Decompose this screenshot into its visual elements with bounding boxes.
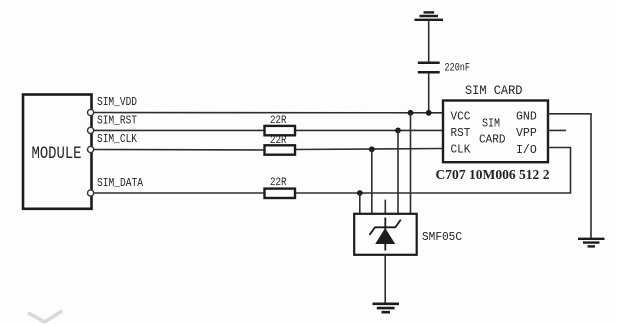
svg-text:SIM_RST: SIM_RST	[97, 115, 137, 128]
svg-text:220nF: 220nF	[445, 63, 471, 75]
junction SIM_VDD / TVS	[408, 110, 414, 116]
wire SIM_CLK to TVS	[371, 149, 373, 214]
pin circle SIM_CLK	[88, 146, 94, 152]
pin circle SIM_RST	[88, 127, 94, 133]
zener diode symbol inside D1	[370, 218, 401, 251]
svg-text:CLK: CLK	[451, 143, 472, 157]
watermark chevron bottom-left	[29, 312, 61, 323]
svg-text:VPP: VPP	[516, 126, 537, 140]
wire SIM_DATA / I-O routing segment	[295, 148, 571, 194]
junction SIM_DATA / TVS	[357, 190, 363, 196]
capacitor C1 220nF	[418, 63, 440, 73]
svg-text:SIM_CLK: SIM_CLK	[97, 133, 137, 146]
svg-text:22R: 22R	[270, 115, 287, 127]
wire ground to capacitor	[428, 20, 430, 62]
svg-text:SIM CARD: SIM CARD	[465, 84, 523, 98]
junction SIM_RST / TVS	[395, 127, 401, 133]
wire SIM_RST to TVS	[397, 130, 399, 213]
sim card connector J1 box	[443, 101, 548, 163]
wire GND pin to right ground	[548, 114, 591, 239]
svg-text:VCC: VCC	[451, 109, 471, 123]
resistor R3 22R (SIM_DATA)	[265, 189, 296, 198]
wire SIM_CLK right segment	[295, 149, 444, 150]
junction SIM_VDD / capacitor	[426, 110, 432, 116]
svg-text:C707 10M006 512 2: C707 10M006 512 2	[436, 167, 550, 182]
wire SIM_RST right segment	[295, 129, 444, 131]
wire TVS center stub	[384, 200, 386, 214]
pin circle SIM_VDD	[88, 109, 94, 115]
wire SIM_RST left segment	[93, 129, 265, 131]
wire capacitor to SIM_VDD line	[428, 73, 430, 113]
pin circle SIM_DATA	[88, 190, 94, 196]
svg-text:GND: GND	[516, 109, 537, 123]
ground (right)	[578, 239, 605, 247]
svg-text:SIM_VDD: SIM_VDD	[97, 96, 137, 109]
TVS diode array D1 SMF05C box	[354, 214, 417, 255]
wire SIM_VDD to TVS	[410, 113, 412, 214]
wire VPP stub	[548, 129, 566, 131]
svg-text:CARD: CARD	[479, 132, 506, 146]
svg-text:22R: 22R	[270, 135, 287, 147]
svg-text:SIM_DATA: SIM_DATA	[97, 177, 143, 190]
wire TVS to bottom ground	[384, 255, 386, 304]
resistor R1 22R (SIM_RST)	[265, 126, 296, 135]
module U1 MODULE box	[23, 95, 92, 209]
svg-text:MODULE: MODULE	[32, 144, 82, 164]
svg-text:SMF05C: SMF05C	[422, 230, 462, 244]
svg-text:22R: 22R	[270, 177, 287, 189]
wire SIM_DATA to TVS	[359, 193, 361, 214]
zener triangle (anode)	[375, 228, 395, 244]
wire SIM_DATA left segment	[93, 192, 265, 194]
wire SIM_CLK left segment	[93, 149, 265, 152]
svg-text:RST: RST	[451, 126, 471, 140]
junction SIM_CLK / TVS	[369, 146, 375, 152]
svg-text:SIM: SIM	[482, 117, 500, 131]
ground (bottom)	[373, 304, 400, 312]
svg-text:I/O: I/O	[516, 143, 537, 157]
wire SIM_VDD horizontal	[93, 112, 443, 114]
ground (top, inverted)	[415, 12, 444, 19]
resistor R2 22R (SIM_CLK)	[265, 145, 296, 154]
